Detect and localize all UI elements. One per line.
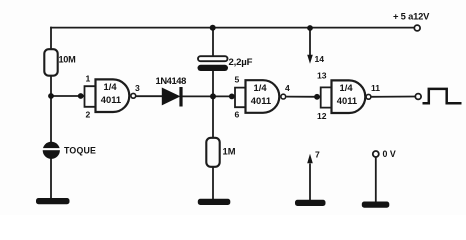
node B junction dot (diode / cap / R2 / U1b) (210, 93, 216, 99)
svg-text:1N4148: 1N4148 (156, 75, 187, 86)
wire diode D1 cathode to node B (183, 95, 214, 97)
wire node B down to resistor R2 top (212, 96, 214, 138)
node junction dot (gate U1b input feed) (229, 94, 235, 100)
output square wave symbol (423, 89, 462, 103)
svg-text:1: 1 (86, 74, 91, 84)
ground (touch plate branch) (36, 198, 70, 204)
wire gate U1c input bracket (321, 87, 332, 107)
svg-text:10M: 10M (59, 55, 77, 65)
ground (resistor R2 branch) (198, 199, 231, 205)
wire node B to gate U1b inputs (213, 95, 235, 97)
node A junction dot (rail / capacitor) (210, 25, 216, 31)
svg-text:4: 4 (285, 83, 290, 93)
svg-text:2: 2 (86, 110, 91, 120)
capacitor C1 top plate (198, 56, 228, 61)
svg-text:+ 5 a12V: + 5 a12V (393, 11, 430, 22)
svg-text:4011: 4011 (101, 94, 121, 105)
node junction dot (left branch / gate U1a feed) (48, 93, 54, 99)
ground (0V branch) (362, 202, 390, 208)
op-amp... NAND gate U1a (1/4 4011) (96, 79, 136, 112)
wire gate U1c output to output terminal (372, 96, 416, 98)
svg-text:5: 5 (235, 75, 240, 85)
wire gate U1b output to gate U1c inputs (287, 96, 321, 98)
output terminal (415, 94, 421, 100)
svg-text:1/4: 1/4 (104, 81, 118, 92)
resistor R2 1M body (206, 138, 219, 167)
svg-text:6: 6 (235, 110, 240, 120)
supply terminal +5 a 12V (414, 25, 420, 31)
svg-text:1/4: 1/4 (340, 82, 354, 93)
wire touch plate bottom to ground (50, 158, 52, 199)
wire 0V terminal lead (375, 157, 377, 203)
svg-text:3: 3 (135, 83, 140, 93)
wire resistor R2 bottom to ground (212, 167, 214, 200)
svg-text:12: 12 (317, 111, 327, 121)
node junction dot (gate U1a input feed) (78, 93, 84, 99)
node junction dot (rail / pin14) (307, 25, 313, 31)
svg-text:4011: 4011 (251, 95, 271, 106)
wire gate U1b input bracket (235, 88, 246, 108)
svg-text:2,2µF: 2,2µF (229, 57, 253, 68)
wire gate U1a input bracket (85, 86, 96, 107)
node junction dot (gate U1c input feed) (314, 94, 320, 100)
wire left branch from rail to resistor R1 top (50, 27, 52, 50)
touch plate electrode (sensor) (42, 142, 61, 159)
svg-text:14: 14 (315, 54, 325, 64)
NAND gate U1b (1/4 4011) (246, 80, 286, 113)
ground (pin 7 branch) (295, 200, 326, 206)
svg-text:13: 13 (317, 71, 327, 81)
pin 14 arrow (supply to IC) (307, 55, 313, 64)
NAND gate U1c (1/4 4011) (332, 80, 371, 113)
wire node to gate U1a inputs (51, 95, 85, 97)
0V terminal (373, 151, 379, 157)
wire gate U1a output to diode D1 anode (136, 95, 163, 97)
svg-text:7: 7 (315, 150, 320, 160)
resistor R1 10M body (44, 49, 57, 75)
svg-text:TOQUE: TOQUE (64, 146, 96, 156)
svg-text:1/4: 1/4 (254, 82, 268, 93)
wire pin 14 supply drop (309, 27, 311, 56)
svg-text:4011: 4011 (337, 95, 357, 106)
pin 7 arrow (IC ground pin) (307, 154, 313, 163)
svg-text:11: 11 (371, 83, 380, 93)
wire top supply rail (50, 27, 414, 29)
svg-text:1M: 1M (223, 146, 236, 157)
wire pin 7 ground lead (309, 164, 311, 202)
wire resistor R1 bottom to touch plate top (50, 75, 52, 143)
wire node B up to capacitor C1 bottom plate (212, 70, 214, 96)
svg-text:0 V: 0 V (383, 149, 396, 159)
diode D1 1N4148 (162, 87, 182, 107)
wire capacitor C1 top plate to rail (212, 27, 214, 57)
capacitor C1 bottom plate (198, 65, 229, 71)
